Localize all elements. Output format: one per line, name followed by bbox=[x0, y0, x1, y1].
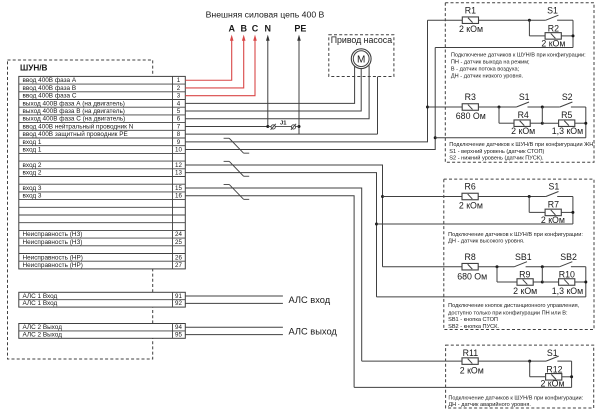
note sensor config PN V DN bbox=[451, 52, 586, 79]
svg-text:R4: R4 bbox=[518, 110, 529, 120]
wire S1 to corner box2 bbox=[557, 197, 573, 225]
wire R4 right bbox=[530, 122, 542, 124]
label R10 bbox=[559, 270, 575, 280]
svg-text:1: 1 bbox=[177, 77, 181, 84]
wire terminal 15 feed to R11 bbox=[185, 188, 361, 361]
resistor R11 bbox=[462, 358, 478, 365]
terminal table of SHUN/V bbox=[19, 76, 186, 269]
arrow neutral N bbox=[266, 35, 270, 41]
svg-text:ввод 400В фаза В: ввод 400В фаза В bbox=[23, 85, 77, 92]
svg-text:10: 10 bbox=[175, 147, 182, 154]
svg-text:M: M bbox=[357, 55, 365, 66]
phase label C bbox=[252, 24, 259, 34]
wire terminal 16 return from box3 bbox=[185, 196, 354, 388]
dashed box sensor group 1 bbox=[445, 3, 594, 163]
resistor R6 bbox=[462, 193, 478, 200]
switch S2 blade bbox=[560, 102, 573, 107]
svg-text:R8: R8 bbox=[464, 252, 475, 262]
wire R3 feed bbox=[428, 106, 463, 108]
wire R9 branch bbox=[497, 267, 517, 282]
arrow phase B bbox=[242, 35, 246, 41]
svg-text:ШУН/В: ШУН/В bbox=[20, 64, 48, 73]
label R6 value bbox=[459, 201, 483, 211]
svg-text:АЛС 2 Выход: АЛС 2 Выход bbox=[23, 324, 63, 331]
svg-text:1,3 кОм: 1,3 кОм bbox=[552, 126, 583, 136]
svg-text:91: 91 bbox=[175, 293, 182, 300]
svg-text:2 кОм: 2 кОм bbox=[460, 365, 484, 375]
node bus12 branch to R6 bbox=[381, 195, 384, 198]
wire R11 feed bbox=[362, 360, 462, 362]
svg-text:ДН - датчик высокого уровня.: ДН - датчик высокого уровня. bbox=[448, 239, 525, 245]
label R11 bbox=[463, 348, 479, 358]
wire R1 feed bbox=[428, 19, 463, 21]
wire R5 left bbox=[542, 122, 558, 124]
svg-text:АЛС 2 Выход: АЛС 2 Выход bbox=[23, 331, 63, 338]
svg-text:доступно только при конфигурац: доступно только при конфигурации ПН или … bbox=[448, 310, 568, 316]
svg-text:16: 16 bbox=[175, 193, 182, 200]
svg-text:R11: R11 bbox=[463, 348, 479, 358]
label SB2 bbox=[560, 252, 577, 262]
svg-text:2: 2 bbox=[177, 85, 181, 92]
wire ALS2 line 94 bbox=[185, 326, 283, 328]
wire node B2 vertical bbox=[541, 267, 543, 282]
svg-text:J1: J1 bbox=[280, 121, 287, 127]
label R11 value bbox=[460, 365, 484, 375]
label ALS input bbox=[289, 295, 331, 305]
wire terminal 9 feed bus bbox=[185, 20, 427, 142]
node R1-S1 bbox=[528, 19, 531, 22]
wire neutral N vertical bbox=[267, 40, 269, 126]
wire return rail box2 bottom bbox=[377, 296, 586, 298]
resistor R5 bbox=[559, 120, 575, 127]
resistor R9 bbox=[517, 279, 533, 286]
neutral label N bbox=[265, 24, 272, 34]
svg-text:Подключение датчиков к ШУН/В п: Подключение датчиков к ШУН/В при конфигу… bbox=[448, 232, 583, 238]
ALS 1 input terminal block bbox=[19, 292, 186, 307]
svg-text:15: 15 bbox=[175, 185, 182, 192]
arrow phase A bbox=[230, 35, 234, 41]
wire R3 to node A bbox=[478, 106, 516, 108]
wire R6 feed bbox=[383, 196, 463, 198]
wire S2 to corner bbox=[571, 107, 586, 138]
ALS 2 output terminal block bbox=[19, 324, 186, 339]
svg-text:ввод 400В нейтральный проводни: ввод 400В нейтральный проводник N bbox=[23, 122, 134, 130]
svg-text:92: 92 bbox=[175, 300, 182, 307]
svg-text:ДН - датчик аварийного уровня.: ДН - датчик аварийного уровня. bbox=[448, 401, 531, 408]
wire phase A to motor bbox=[185, 66, 354, 103]
node R11-S1 bbox=[528, 360, 531, 363]
svg-text:вход 1: вход 1 bbox=[23, 139, 42, 146]
wire R4 branch bbox=[499, 107, 514, 123]
svg-text:26: 26 bbox=[175, 254, 182, 261]
wire S1 to corner bbox=[557, 20, 573, 47]
svg-text:C: C bbox=[252, 24, 259, 34]
svg-text:Подключение датчиков к ШУН/В п: Подключение датчиков к ШУН/В при конфигу… bbox=[449, 142, 595, 148]
svg-text:Подключение датчиков к ШУН/В п: Подключение датчиков к ШУН/В при конфигу… bbox=[448, 395, 583, 401]
label R4 bbox=[518, 110, 529, 120]
label R5 value bbox=[552, 126, 583, 136]
wire R2 right bbox=[561, 35, 573, 37]
terminal table row labels and pin numbers bbox=[23, 77, 183, 269]
jumper J1 wire bbox=[268, 125, 299, 127]
label S1 box3 bbox=[547, 348, 558, 358]
svg-text:2 кОм: 2 кОм bbox=[459, 201, 483, 211]
wire R10 right bbox=[575, 281, 586, 283]
dashed enclosure SHUN/V cabinet bbox=[8, 60, 153, 359]
svg-text:S2: S2 bbox=[562, 92, 573, 102]
note sensor config ZhN bbox=[449, 142, 595, 162]
wire R1 to node bbox=[479, 19, 546, 21]
resistor R12 bbox=[546, 374, 562, 381]
wire PE vertical bbox=[298, 40, 300, 134]
label R7 value bbox=[541, 215, 565, 225]
svg-text:Неисправность (НЗ): Неисправность (НЗ) bbox=[23, 231, 83, 238]
wire ALS1 line 91 bbox=[185, 295, 283, 297]
switch SB1 blade bbox=[514, 262, 527, 267]
wire terminal 10 return bus bbox=[185, 48, 435, 150]
svg-text:АЛС вход: АЛС вход bbox=[289, 295, 331, 305]
svg-text:вход 2: вход 2 bbox=[23, 162, 42, 169]
node bus10 branch bbox=[434, 136, 437, 139]
node N junction bbox=[266, 125, 269, 128]
svg-text:АЛС выход: АЛС выход bbox=[289, 326, 338, 336]
svg-text:Привод насоса: Привод насоса bbox=[331, 35, 393, 45]
svg-text:SB1 - кнопка СТОП: SB1 - кнопка СТОП bbox=[448, 317, 498, 323]
svg-text:8: 8 bbox=[177, 131, 181, 138]
svg-text:1,3 кОм: 1,3 кОм bbox=[552, 286, 583, 296]
svg-text:R6: R6 bbox=[464, 182, 475, 192]
svg-text:680 Ом: 680 Ом bbox=[456, 111, 486, 121]
jumper J1 terminal circle right bbox=[291, 124, 296, 130]
node PE junction bbox=[298, 125, 301, 128]
svg-text:SB1: SB1 bbox=[515, 252, 532, 262]
label R12 bbox=[546, 365, 562, 375]
svg-text:вход 2: вход 2 bbox=[23, 170, 42, 177]
phase label B bbox=[240, 24, 247, 34]
label S1 box2 bbox=[549, 182, 560, 192]
note sensor config DN high level bbox=[448, 232, 583, 245]
svg-text:R5: R5 bbox=[561, 110, 572, 120]
wire phase C to terminal 3 bbox=[185, 40, 255, 95]
resistor R3 bbox=[462, 104, 478, 111]
wire phase B to motor bbox=[185, 69, 361, 112]
wire R8 feed bbox=[383, 266, 463, 268]
wire return rail top bbox=[435, 47, 573, 49]
svg-text:выход 400В фаза С (на двигател: выход 400В фаза С (на двигатель) bbox=[23, 116, 126, 123]
svg-text:ПН - датчик выхода на режим;: ПН - датчик выхода на режим; bbox=[451, 59, 530, 65]
node R6-S1 bbox=[528, 195, 531, 198]
wire PE riser to pump drive bbox=[377, 77, 379, 135]
svg-text:27: 27 bbox=[175, 262, 182, 269]
label S2 bbox=[562, 92, 573, 102]
svg-text:Внешняя силовая цепь 400 В: Внешняя силовая цепь 400 В bbox=[206, 10, 325, 20]
label R4 value bbox=[511, 126, 535, 136]
wire node B vertical bbox=[541, 107, 543, 123]
wire ALS2 line 95 bbox=[185, 334, 283, 336]
wire ALS1 line 92 bbox=[185, 302, 283, 304]
switch S1 blade box2 bbox=[546, 192, 559, 197]
svg-text:R2: R2 bbox=[548, 24, 559, 34]
svg-text:N: N bbox=[265, 24, 272, 34]
resistor R7 bbox=[545, 209, 561, 216]
cable mark input 2 pair bbox=[224, 161, 250, 176]
label external power circuit 400V bbox=[206, 10, 325, 20]
svg-text:13: 13 bbox=[175, 170, 182, 177]
svg-text:95: 95 bbox=[175, 331, 182, 338]
wire return rail box3 bbox=[354, 386, 571, 388]
svg-text:вход 1: вход 1 bbox=[23, 147, 42, 154]
wire R12 right bbox=[562, 376, 572, 378]
svg-text:680 Ом: 680 Ом bbox=[457, 271, 487, 281]
label R3 bbox=[465, 92, 476, 102]
wire R7 branch bbox=[529, 197, 545, 213]
arrow earth PE bbox=[297, 35, 301, 41]
svg-text:выход 400В фаза В (на двигател: выход 400В фаза В (на двигатель) bbox=[23, 108, 125, 115]
label R7 bbox=[548, 200, 559, 210]
switch S1 blade box3 bbox=[546, 356, 559, 361]
node R5 right bbox=[584, 122, 587, 125]
label SB1 bbox=[515, 252, 532, 262]
svg-text:S1: S1 bbox=[549, 182, 560, 192]
svg-text:5: 5 bbox=[177, 108, 181, 115]
svg-text:ввод 400В защитный проводник Р: ввод 400В защитный проводник РЕ bbox=[23, 130, 128, 138]
node R10 right bbox=[584, 281, 587, 284]
resistor R8 bbox=[462, 263, 478, 270]
svg-text:АЛС 1 Вход: АЛС 1 Вход bbox=[23, 293, 58, 300]
svg-text:R9: R9 bbox=[519, 270, 530, 280]
svg-text:S1: S1 bbox=[519, 92, 530, 102]
svg-text:R10: R10 bbox=[559, 270, 575, 280]
label R5 bbox=[561, 110, 572, 120]
node A bbox=[498, 106, 501, 109]
wire R8 to node A2 bbox=[478, 266, 514, 268]
wire phase A to terminal 1 bbox=[185, 40, 231, 80]
node R7 right bbox=[571, 211, 574, 214]
motor M1 symbol bbox=[351, 49, 371, 69]
svg-text:Неисправность (НР): Неисправность (НР) bbox=[23, 254, 83, 261]
switch SB2 blade bbox=[560, 262, 573, 267]
svg-text:Неисправность (НР): Неисправность (НР) bbox=[23, 262, 83, 269]
jumper J1 terminal circle left bbox=[271, 124, 276, 130]
switch S1 blade top bbox=[546, 15, 559, 20]
svg-text:2 кОм: 2 кОм bbox=[541, 38, 565, 48]
svg-text:ДН - датчик низкого уровня.: ДН - датчик низкого уровня. bbox=[451, 73, 524, 79]
svg-text:7: 7 bbox=[177, 123, 181, 130]
wire phase B to terminal 2 bbox=[185, 40, 243, 88]
node A2 bbox=[496, 265, 499, 268]
svg-text:вход 3: вход 3 bbox=[23, 185, 42, 192]
svg-text:3: 3 bbox=[177, 93, 181, 100]
label R2 bbox=[548, 24, 559, 34]
svg-text:АЛС 1 Вход: АЛС 1 Вход bbox=[23, 300, 58, 307]
label R6 bbox=[464, 182, 475, 192]
label R10 value bbox=[552, 286, 583, 296]
svg-text:PE: PE bbox=[294, 24, 306, 34]
svg-text:6: 6 bbox=[177, 116, 181, 123]
label R3 value bbox=[456, 111, 486, 121]
wire R7 right bbox=[561, 211, 573, 213]
svg-text:Неисправность (НЗ): Неисправность (НЗ) bbox=[23, 239, 83, 246]
wire terminal 8 PE line bbox=[185, 133, 377, 135]
svg-text:ввод 400В фаза А: ввод 400В фаза А bbox=[23, 77, 77, 84]
protective earth label PE bbox=[294, 24, 306, 34]
wire SB1 to node B2 bbox=[526, 266, 560, 268]
dashed box pump drive bbox=[329, 35, 394, 77]
node R12 right bbox=[570, 375, 573, 378]
label S1 mid bbox=[519, 92, 530, 102]
note remote buttons SB1 SB2 bbox=[448, 303, 580, 330]
svg-text:R12: R12 bbox=[546, 365, 562, 375]
switch S1 blade mid bbox=[516, 102, 529, 107]
wire R6 to node bbox=[478, 196, 546, 198]
wire return rail box2 top bbox=[377, 223, 573, 225]
label R2 value bbox=[541, 38, 565, 48]
svg-text:S1: S1 bbox=[547, 348, 558, 358]
wire R5 right bbox=[575, 122, 586, 124]
label J1 bbox=[280, 121, 287, 127]
node bus13 branch bbox=[375, 223, 378, 226]
cable mark input 1 pair bbox=[224, 138, 250, 153]
wire R12 branch bbox=[530, 361, 546, 377]
label pump drive bbox=[331, 35, 393, 45]
svg-text:S1 - верхний уровень (датчик С: S1 - верхний уровень (датчик СТОП) bbox=[449, 148, 544, 155]
label ALS output bbox=[289, 326, 338, 336]
svg-text:24: 24 bbox=[175, 231, 182, 238]
wire R9 right bbox=[533, 281, 542, 283]
resistor R4 bbox=[514, 120, 530, 127]
wire return rail mid bbox=[435, 137, 586, 139]
svg-text:2 кОм: 2 кОм bbox=[459, 24, 483, 34]
svg-text:A: A bbox=[228, 24, 235, 34]
wire terminal 13 return bus bbox=[185, 173, 376, 297]
svg-text:В - датчик потока воздуха;: В - датчик потока воздуха; bbox=[451, 66, 520, 72]
svg-text:S1: S1 bbox=[547, 5, 558, 15]
node R2 right bbox=[572, 34, 575, 37]
node B2 bbox=[541, 265, 544, 268]
svg-text:ввод 400В фаза С: ввод 400В фаза С bbox=[23, 93, 77, 100]
label R8 bbox=[464, 252, 475, 262]
wire R2 branch left bbox=[529, 20, 545, 36]
svg-text:4: 4 bbox=[177, 100, 181, 107]
node bus9 branch to R3 bbox=[426, 106, 429, 109]
cable mark input 3 pair bbox=[224, 184, 250, 199]
wire S1 to corner box3 bbox=[557, 361, 571, 387]
svg-text:94: 94 bbox=[175, 324, 182, 331]
svg-text:2 кОм: 2 кОм bbox=[511, 126, 535, 136]
node R4 right bbox=[541, 122, 544, 125]
label R1 value bbox=[459, 24, 483, 34]
note sensor config DN emergency level bbox=[448, 395, 583, 408]
resistor R1 bbox=[462, 17, 478, 24]
resistor R2 bbox=[545, 33, 561, 40]
label R1 bbox=[465, 5, 476, 15]
svg-text:R1: R1 bbox=[465, 5, 476, 15]
label R9 bbox=[519, 270, 530, 280]
dashed box sensor group 2 bbox=[444, 179, 594, 329]
node B bbox=[541, 106, 544, 109]
wire R10 left bbox=[542, 281, 558, 283]
svg-text:выход 400В фаза А (на двигател: выход 400В фаза А (на двигатель) bbox=[23, 100, 125, 107]
wire R11 to node bbox=[478, 360, 546, 362]
svg-text:Подключение датчиков к ШУН/В п: Подключение датчиков к ШУН/В при конфигу… bbox=[451, 52, 586, 58]
label S1 top bbox=[547, 5, 558, 15]
label R9 value bbox=[513, 286, 537, 296]
svg-text:B: B bbox=[240, 24, 247, 34]
wire phase C to motor bbox=[185, 65, 369, 119]
svg-text:2 кОм: 2 кОм bbox=[513, 286, 537, 296]
svg-text:S2 - нижний уровень (датчик ПУ: S2 - нижний уровень (датчик ПУСК). bbox=[449, 155, 544, 162]
svg-text:вход 3: вход 3 bbox=[23, 193, 42, 200]
svg-text:R7: R7 bbox=[548, 200, 559, 210]
svg-text:25: 25 bbox=[175, 239, 182, 246]
svg-text:Подключение кнопок дистанционн: Подключение кнопок дистанционного управл… bbox=[448, 303, 580, 309]
arrow phase C bbox=[253, 35, 257, 41]
svg-text:SB2 - кнопка ПУСК.: SB2 - кнопка ПУСК. bbox=[448, 324, 499, 330]
wire SB2 to corner bbox=[571, 267, 586, 297]
svg-text:R3: R3 bbox=[465, 92, 476, 102]
label R12 value bbox=[540, 378, 564, 388]
label R8 value bbox=[457, 271, 487, 281]
dashed box sensor group 3 bbox=[446, 345, 594, 408]
resistor R10 bbox=[559, 279, 575, 286]
svg-text:9: 9 bbox=[177, 139, 181, 146]
phase label A bbox=[228, 24, 235, 34]
wire S1 to node B bbox=[528, 106, 560, 108]
svg-text:SB2: SB2 bbox=[560, 252, 577, 262]
wire terminal 7 to N node bbox=[185, 125, 267, 127]
node R9 right bbox=[541, 281, 544, 284]
svg-text:12: 12 bbox=[175, 162, 182, 169]
wire terminal 12 feed bus bbox=[185, 165, 382, 267]
label SHUN/V bbox=[20, 64, 48, 73]
